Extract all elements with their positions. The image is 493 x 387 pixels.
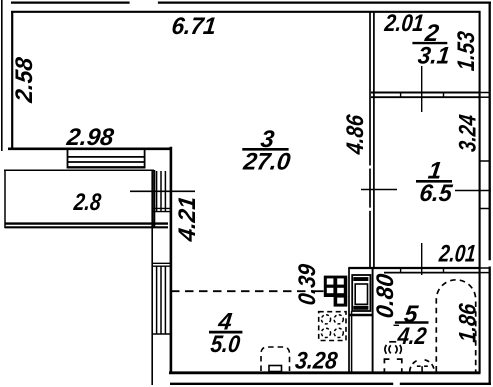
- svg-text:2.8: 2.8: [72, 188, 103, 215]
- svg-text:6.5: 6.5: [418, 181, 454, 207]
- svg-text:1.53: 1.53: [453, 29, 480, 72]
- svg-text:0.39: 0.39: [294, 262, 321, 306]
- svg-text:4.21: 4.21: [174, 195, 201, 244]
- svg-text:4.2: 4.2: [395, 322, 428, 349]
- svg-text:2.58: 2.58: [11, 55, 37, 105]
- svg-text:4.86: 4.86: [341, 113, 368, 156]
- svg-text:27.0: 27.0: [241, 149, 292, 176]
- svg-text:5.0: 5.0: [209, 330, 242, 358]
- svg-text:2.01: 2.01: [437, 239, 477, 267]
- svg-text:3.28: 3.28: [294, 346, 339, 373]
- svg-text:2.01: 2.01: [383, 9, 426, 36]
- svg-text:6.71: 6.71: [170, 13, 217, 40]
- svg-text:2.98: 2.98: [64, 124, 115, 151]
- svg-text:1.86: 1.86: [454, 302, 481, 344]
- svg-text:3.1: 3.1: [417, 42, 452, 69]
- svg-text:3.24: 3.24: [453, 113, 481, 153]
- svg-text:0.80: 0.80: [371, 272, 398, 319]
